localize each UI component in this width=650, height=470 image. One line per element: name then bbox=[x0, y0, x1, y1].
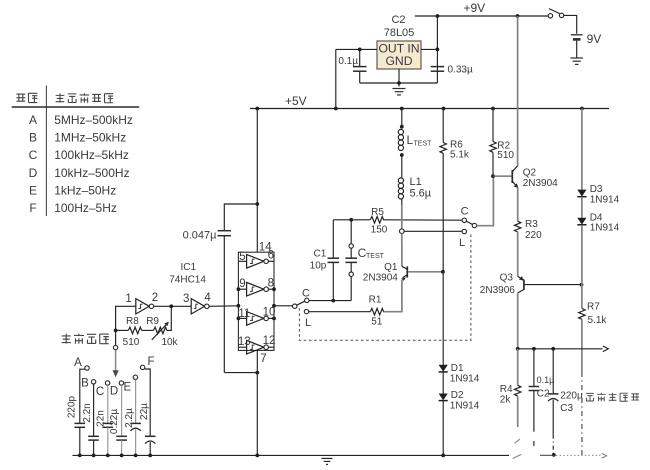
Ctest terminal circles bbox=[349, 244, 353, 248]
svg-text:+9V: +9V bbox=[464, 1, 486, 15]
svg-text:5: 5 bbox=[239, 251, 245, 263]
inverter gate 11-10 bbox=[247, 312, 269, 326]
output wire to voltmeter bbox=[518, 348, 603, 350]
table header rule bbox=[12, 106, 140, 108]
svg-text:10p: 10p bbox=[310, 260, 327, 271]
node Q3 collector / R4 bbox=[516, 347, 520, 351]
wire B to capacitor 2.2n bbox=[93, 384, 95, 436]
capacitor 2.2n plates bbox=[88, 435, 99, 437]
resistor R5 bbox=[370, 217, 383, 224]
svg-text:9: 9 bbox=[239, 278, 245, 290]
node C2 top bbox=[532, 347, 536, 351]
capacitor C3 column bbox=[552, 349, 554, 394]
svg-text:0.1µ: 0.1µ bbox=[338, 56, 358, 67]
resistor R9 (variable) bbox=[154, 327, 167, 334]
svg-text:3: 3 bbox=[183, 293, 189, 305]
resistor R8 bbox=[128, 327, 141, 334]
svg-text:0.1µ: 0.1µ bbox=[537, 375, 555, 385]
capacitor 0.047u plates bbox=[218, 230, 231, 232]
resistor R2 column bbox=[492, 109, 494, 142]
node Ltest bottom bbox=[400, 153, 404, 157]
svg-text:C: C bbox=[96, 386, 104, 398]
svg-text:2N3904: 2N3904 bbox=[363, 272, 398, 283]
contact A bbox=[85, 366, 89, 370]
capacitor 22u plates (polarized) bbox=[145, 435, 156, 437]
capacitor C3 plates (polarized) bbox=[548, 393, 559, 395]
rotary switch common bbox=[113, 345, 117, 349]
svg-text:2.2µ: 2.2µ bbox=[124, 408, 135, 428]
svg-text:F: F bbox=[147, 356, 154, 368]
wire IN pin to right bbox=[421, 48, 437, 50]
wire to R8 bbox=[116, 329, 129, 331]
resistor R1 bbox=[370, 308, 383, 315]
hex inverter bus box bbox=[238, 252, 274, 350]
label 范围开关 bbox=[62, 334, 109, 344]
switch SW1b contact L bbox=[462, 229, 466, 233]
wire to L1 bbox=[401, 155, 403, 178]
gate output stub wires bbox=[268, 260, 274, 262]
svg-text:2: 2 bbox=[152, 292, 158, 304]
svg-text:D: D bbox=[29, 166, 38, 180]
L test jack (open circle) bbox=[400, 229, 405, 234]
switch SW1a common bbox=[293, 304, 297, 308]
wire gate1 out to gate3 in bbox=[154, 305, 191, 307]
Q1 base wire (gray) bbox=[408, 271, 443, 273]
svg-text:L1: L1 bbox=[410, 176, 422, 188]
svg-text:5.1k: 5.1k bbox=[450, 150, 470, 161]
svg-text:A: A bbox=[29, 113, 37, 127]
wire SW1b common to R2/Q2 node (gray) bbox=[477, 176, 494, 226]
svg-text:8: 8 bbox=[268, 277, 274, 289]
svg-text:L: L bbox=[459, 237, 465, 249]
node: C2 IN column joins +9V rail bbox=[436, 14, 440, 18]
node R8 branch bbox=[114, 329, 118, 333]
ground symbol main bbox=[322, 458, 333, 464]
wire L jack to right switch bbox=[404, 230, 462, 232]
wire jack to Q1 collector bbox=[401, 234, 403, 247]
svg-text:E: E bbox=[29, 183, 37, 197]
capacitor 2.2u plates (polarized) bbox=[130, 422, 141, 424]
wire F to capacitor 22u bbox=[145, 369, 150, 436]
svg-text:510: 510 bbox=[123, 337, 140, 348]
svg-text:B: B bbox=[29, 130, 37, 144]
inverter gate 3-4 bbox=[191, 299, 209, 314]
wire R9 to pin2 node bbox=[167, 306, 172, 330]
contact E bbox=[133, 375, 137, 379]
svg-text:D: D bbox=[110, 385, 118, 397]
switch SW1a lever bbox=[297, 301, 305, 305]
svg-text:C: C bbox=[302, 288, 310, 300]
node GND bbox=[397, 81, 401, 85]
node 0.1u top bbox=[358, 48, 362, 52]
node Q2 base bbox=[491, 174, 495, 178]
svg-text:2N3906: 2N3906 bbox=[480, 285, 515, 296]
node pin7 at rail bbox=[255, 454, 259, 458]
+5V rail bbox=[250, 108, 609, 110]
node Q3 base bbox=[580, 283, 584, 287]
wire hex box out to switch SW1a bbox=[274, 305, 293, 307]
node C3 at rail bbox=[552, 453, 556, 457]
node 0.047u return bbox=[255, 371, 259, 375]
svg-text:1N914: 1N914 bbox=[450, 374, 480, 385]
capacitor 0.33u plates bbox=[431, 66, 445, 68]
ground rail end arrow bbox=[602, 453, 607, 458]
wire C2 down (fragments) bbox=[533, 391, 535, 432]
svg-text:L: L bbox=[407, 133, 414, 147]
capacitor C2 column bbox=[533, 349, 535, 387]
wire cap bottoms bus bbox=[360, 82, 438, 84]
svg-text:F: F bbox=[29, 201, 36, 215]
capacitor 0.22u plates bbox=[116, 435, 127, 437]
svg-text:C2: C2 bbox=[391, 14, 405, 26]
diode D4 bbox=[577, 218, 586, 225]
capacitor 22n plates bbox=[103, 422, 114, 424]
wire pin1 input bbox=[116, 306, 136, 345]
wire D4 to R7 (gray) bbox=[581, 225, 583, 309]
svg-text:B: B bbox=[81, 378, 89, 390]
svg-text:12: 12 bbox=[263, 335, 276, 347]
svg-text:10k: 10k bbox=[161, 337, 178, 348]
wire D3-D4 (gray) bbox=[581, 197, 583, 218]
regulator U: C2 78L05 box bbox=[377, 41, 421, 69]
resistor R3 bbox=[515, 221, 521, 232]
wire switch to battery bbox=[564, 15, 577, 33]
svg-text:100Hz–5Hz: 100Hz–5Hz bbox=[54, 201, 117, 215]
svg-text:TEST: TEST bbox=[414, 141, 433, 148]
inverter gate 9-8 bbox=[247, 282, 269, 296]
capacitor 220p plates bbox=[75, 422, 86, 424]
wire R3 to Q3 (gray) bbox=[517, 232, 519, 276]
contact C bbox=[105, 381, 109, 385]
svg-text:C3: C3 bbox=[560, 403, 573, 414]
switch SW1a contact C bbox=[305, 298, 309, 302]
output arrow head bbox=[603, 346, 609, 352]
svg-text:D1: D1 bbox=[451, 363, 464, 374]
node: Q2 collector column joins +9V rail bbox=[516, 14, 520, 18]
svg-text:C1: C1 bbox=[314, 249, 327, 260]
label 外部电压表 bbox=[586, 393, 639, 401]
svg-text:R7: R7 bbox=[587, 301, 600, 312]
svg-text:6: 6 bbox=[268, 250, 274, 262]
label 220p (rotated) bbox=[67, 395, 78, 418]
node C1 bottom bbox=[331, 299, 335, 303]
wire OUT down to +5V rail bbox=[335, 49, 337, 108]
diode D3 bbox=[577, 190, 586, 197]
svg-text:78L05: 78L05 bbox=[384, 27, 415, 39]
resistor R7 bbox=[579, 309, 585, 320]
inverter gate 5-6 bbox=[247, 254, 269, 268]
svg-text:220µ: 220µ bbox=[560, 390, 583, 401]
ground symbol under regulator bbox=[393, 89, 406, 95]
wire gate3 out to hex box bbox=[209, 305, 238, 308]
transistor Q3 (2N3906) bbox=[518, 276, 524, 280]
svg-text:IC1: IC1 bbox=[181, 262, 197, 273]
svg-text:A: A bbox=[74, 357, 82, 369]
+5V rail nodes bbox=[255, 107, 259, 111]
wire D1-D2 bbox=[442, 372, 444, 393]
pin14 vertical wire bbox=[256, 109, 258, 253]
svg-text:1kHz–50Hz: 1kHz–50Hz bbox=[54, 183, 116, 197]
wire R8-R9 bbox=[142, 329, 154, 331]
svg-text:1N914: 1N914 bbox=[590, 195, 620, 206]
svg-text:5MHz–500kHz: 5MHz–500kHz bbox=[54, 113, 133, 127]
svg-text:7: 7 bbox=[260, 353, 266, 365]
wire OUT pin to left bbox=[336, 48, 377, 50]
switch S1 lever bbox=[549, 9, 560, 14]
ground symbol battery bbox=[570, 58, 583, 64]
svg-text:1MHz–50kHz: 1MHz–50kHz bbox=[54, 130, 126, 144]
capacitor 0.1u plates bbox=[353, 66, 367, 68]
+9V rail bbox=[415, 15, 549, 17]
label 0.22u (rotated) bbox=[109, 409, 120, 434]
ground rail nodes for range caps bbox=[78, 454, 82, 458]
table header 频段 bbox=[16, 93, 37, 102]
Ctest stem up / node bbox=[350, 276, 352, 300]
svg-text:C: C bbox=[461, 205, 469, 217]
switch S1 (power) circles bbox=[548, 14, 552, 18]
inverter gate 13-12 bbox=[247, 340, 269, 354]
svg-text:0.33µ: 0.33µ bbox=[448, 65, 473, 76]
svg-text:1: 1 bbox=[125, 293, 131, 305]
transistor Q2 (2N3904) bbox=[493, 175, 512, 177]
svg-text:220: 220 bbox=[525, 230, 542, 241]
wire D to capacitor 0.22u bbox=[121, 385, 123, 436]
Q2 collector feed from +9V (gray) bbox=[517, 16, 519, 166]
svg-text:74HC14: 74HC14 bbox=[169, 274, 206, 285]
dashed gang linkage bbox=[299, 234, 471, 340]
label 22n (rotated) bbox=[95, 410, 106, 427]
svg-text:R3: R3 bbox=[525, 219, 538, 230]
contact D bbox=[119, 381, 123, 385]
node Q1 base to D1 column bbox=[441, 270, 445, 274]
capacitor C1 stems bbox=[332, 263, 334, 301]
wire R4 down (fragment) bbox=[517, 396, 519, 427]
svg-text:150: 150 bbox=[371, 224, 388, 235]
wire GND pin down bbox=[398, 69, 400, 87]
switch SW1b contact C bbox=[462, 218, 466, 222]
node C3 top bbox=[551, 347, 555, 351]
table column divider bbox=[45, 86, 47, 217]
wire E to capacitor 2.2u bbox=[135, 380, 137, 424]
label 2.2n (rotated) bbox=[82, 403, 93, 422]
resistor R2 bbox=[490, 142, 496, 153]
inductor Ltest bbox=[398, 129, 403, 150]
node Ltest top bbox=[400, 125, 404, 129]
capacitor 0.047u branch wires bbox=[224, 204, 257, 231]
contact B bbox=[91, 380, 95, 384]
capacitor C1 plates bbox=[328, 257, 340, 259]
inductor L1 bbox=[398, 178, 403, 199]
svg-text:R5: R5 bbox=[371, 207, 384, 218]
svg-text:GND: GND bbox=[385, 54, 412, 68]
svg-text:5.1k: 5.1k bbox=[588, 315, 608, 326]
node Ctest top bbox=[349, 218, 353, 222]
Q3 base wire to D4/R7 node bbox=[524, 284, 582, 286]
ground rail bbox=[73, 454, 510, 456]
node IN column bbox=[436, 48, 440, 52]
wire L1 to test jack bbox=[401, 199, 403, 205]
svg-text:9V: 9V bbox=[587, 32, 602, 46]
wire D2 to ground rail bbox=[442, 401, 444, 456]
ground rail watermark fragments bbox=[513, 454, 522, 458]
svg-text:5.6µ: 5.6µ bbox=[410, 188, 432, 200]
resistor R6 bbox=[440, 143, 446, 154]
svg-text:R1: R1 bbox=[369, 295, 382, 306]
diode D2 bbox=[439, 394, 448, 401]
svg-text:R8: R8 bbox=[126, 316, 139, 327]
switch SW1b lever bbox=[466, 221, 472, 224]
label 22u (rotated) bbox=[139, 403, 150, 420]
R9 arrow bbox=[152, 324, 167, 340]
svg-text:+5V: +5V bbox=[285, 94, 307, 108]
svg-text:22µ: 22µ bbox=[139, 403, 150, 420]
table header 振荡器频率 bbox=[56, 93, 113, 103]
Q1 emitter wire down (gray) bbox=[401, 280, 403, 312]
wire R7 down (gray, fades into watermark) bbox=[581, 319, 583, 372]
capacitor Ctest plates bbox=[345, 257, 357, 259]
D3/D4 column from +5V (gray) bbox=[581, 109, 583, 190]
svg-text:0.22µ: 0.22µ bbox=[109, 409, 120, 434]
svg-text:2N3904: 2N3904 bbox=[523, 178, 558, 189]
R4 column (gray, fades into watermark) bbox=[517, 349, 519, 386]
wire A to capacitor 220p bbox=[80, 369, 85, 423]
capacitor 0.1u stems bbox=[359, 49, 361, 66]
wire R5 row bbox=[333, 219, 370, 221]
wire battery to ground bbox=[576, 41, 578, 58]
node 0.047u branch bbox=[255, 202, 259, 206]
L branch: wire from +5V bbox=[401, 109, 403, 129]
wire R1 row bbox=[383, 311, 402, 313]
diode D1 bbox=[439, 365, 448, 372]
label 2.2u (rotated) bbox=[124, 408, 135, 428]
svg-text:Q3: Q3 bbox=[500, 272, 514, 283]
transistor Q1 (2N3904, mirrored) bbox=[402, 266, 407, 269]
inverter gate 1-2 bbox=[136, 299, 154, 314]
svg-text:10kHz–500Hz: 10kHz–500Hz bbox=[54, 166, 129, 180]
svg-text:E: E bbox=[123, 381, 131, 393]
svg-text:510: 510 bbox=[497, 150, 514, 161]
svg-text:R4: R4 bbox=[500, 384, 513, 395]
wire C contact to C1/Ctest bbox=[309, 300, 351, 302]
wire C2 IN vertical bbox=[436, 16, 438, 83]
node pin2 / R9 bbox=[169, 304, 173, 308]
node D2 at rail bbox=[441, 454, 445, 458]
switch SW1a contact L bbox=[304, 309, 308, 313]
wire C to capacitor 22n bbox=[107, 385, 109, 423]
svg-text:13: 13 bbox=[238, 336, 251, 348]
svg-text:C: C bbox=[29, 148, 38, 162]
svg-text:2k: 2k bbox=[500, 394, 512, 405]
resistor R4 bbox=[515, 385, 521, 396]
svg-text:TEST: TEST bbox=[366, 253, 385, 260]
wire C3 down (dash-dot) bbox=[552, 400, 554, 435]
battery 9V plates bbox=[571, 34, 583, 36]
wire R2 to Q2 base node bbox=[492, 152, 494, 176]
Q3 collector down to output node (gray) bbox=[517, 293, 519, 349]
svg-text:100kHz–5kHz: 100kHz–5kHz bbox=[54, 148, 129, 162]
svg-text:1N914: 1N914 bbox=[450, 400, 480, 411]
svg-text:220p: 220p bbox=[67, 395, 78, 418]
svg-text:4: 4 bbox=[204, 292, 211, 304]
svg-text:L: L bbox=[305, 317, 311, 329]
resistor R6 column bbox=[442, 109, 444, 143]
wire Q2 emitter to R3 (gray) bbox=[517, 187, 519, 221]
switch SW1b common bbox=[472, 223, 476, 227]
svg-text:2.2n: 2.2n bbox=[82, 403, 93, 422]
svg-text:22n: 22n bbox=[95, 410, 106, 427]
svg-text:51: 51 bbox=[371, 316, 383, 327]
contact F bbox=[140, 365, 144, 369]
svg-text:1N914: 1N914 bbox=[590, 223, 620, 234]
svg-text:0.047µ: 0.047µ bbox=[183, 229, 218, 241]
wire R6 down to D1 branch bbox=[442, 153, 444, 364]
capacitor C2 plates bbox=[529, 386, 540, 388]
svg-text:D2: D2 bbox=[451, 390, 464, 401]
rotary wiper arrow bbox=[115, 350, 117, 371]
pin7 wire down bbox=[256, 350, 258, 455]
svg-text:R9: R9 bbox=[146, 316, 159, 327]
box bus nodes bbox=[237, 287, 241, 291]
